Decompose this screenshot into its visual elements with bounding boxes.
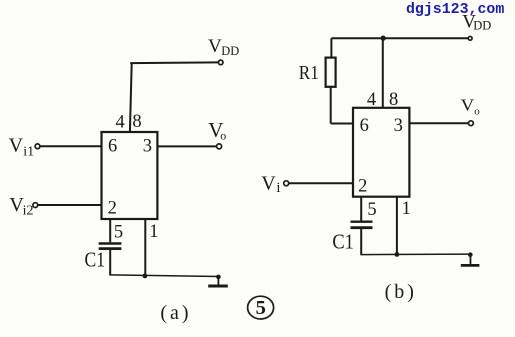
wire ground rail (a) xyxy=(109,275,218,277)
svg-text:1: 1 xyxy=(402,199,411,219)
terminal Vi2 xyxy=(33,203,38,208)
svg-text:i2: i2 xyxy=(23,204,34,219)
junction pin1/rail (a) xyxy=(143,274,148,279)
wire pins4-8 to VDD (a) vertical xyxy=(130,63,132,132)
svg-text:C1: C1 xyxy=(85,248,106,272)
svg-text:DD: DD xyxy=(473,19,491,33)
ground (a) xyxy=(208,275,228,286)
svg-text:i1: i1 xyxy=(23,144,34,159)
svg-text:(b): (b) xyxy=(385,281,417,303)
wire pin5 down (a) xyxy=(109,219,111,242)
svg-text:3: 3 xyxy=(143,136,152,156)
wire VDD horizontal (a) xyxy=(130,61,218,64)
capacitor C1 (b) xyxy=(351,222,373,228)
svg-text:V: V xyxy=(9,134,24,156)
svg-text:(a): (a) xyxy=(160,302,191,324)
wire Vi1 to pin6 xyxy=(40,145,102,147)
svg-text:2: 2 xyxy=(108,199,117,219)
svg-text:1: 1 xyxy=(149,222,158,242)
wire pin3 to Vo (b) xyxy=(409,122,468,124)
capacitor C1 (a) xyxy=(99,244,122,249)
svg-text:V: V xyxy=(261,173,276,195)
wire pin1 down (b) xyxy=(396,197,398,255)
terminal VDD (b) xyxy=(468,36,472,40)
terminal Vi (b) xyxy=(284,181,289,186)
wire R1 to corner (b) xyxy=(330,87,332,124)
svg-text:DD: DD xyxy=(221,44,239,58)
wire pin5 down (b) xyxy=(360,197,362,221)
wire C1 to rail (b) xyxy=(360,228,362,255)
svg-text:o: o xyxy=(220,128,226,142)
wire VDD rail (b) xyxy=(331,37,468,39)
terminal VDD (a) xyxy=(218,60,223,65)
svg-text:dgjs123,com: dgjs123,com xyxy=(406,2,504,18)
wire ground rail (b) xyxy=(360,253,470,256)
terminal Vo (a) xyxy=(217,144,222,149)
ground (b) xyxy=(461,252,480,265)
wire Vi2 to pin2 xyxy=(38,204,102,206)
wire pins4-8 (b) xyxy=(382,38,384,108)
label Vi1 xyxy=(9,134,35,159)
svg-text:3: 3 xyxy=(394,116,403,136)
resistor R1 xyxy=(326,58,336,87)
svg-text:C1: C1 xyxy=(332,230,354,254)
terminal Vi1 xyxy=(35,144,40,149)
junction rail/pin4-8 (b) xyxy=(381,36,386,41)
svg-text:R1: R1 xyxy=(299,62,319,84)
label VDD (b) xyxy=(462,12,491,33)
figure number circled 5 xyxy=(248,296,274,319)
svg-text:o: o xyxy=(474,106,480,118)
wire pin1 down (a) xyxy=(144,219,146,276)
svg-text:V: V xyxy=(208,36,222,57)
svg-text:5: 5 xyxy=(114,222,123,242)
svg-text:8: 8 xyxy=(132,112,141,132)
IC U_a box xyxy=(102,132,158,219)
svg-text:V: V xyxy=(461,95,475,114)
svg-text:6: 6 xyxy=(108,137,117,157)
label Vi (b) xyxy=(261,173,280,196)
svg-text:6: 6 xyxy=(360,116,369,136)
wire Vi to pin2 (b) xyxy=(289,182,353,184)
junction pin1/rail (b) xyxy=(395,252,400,257)
terminal Vo (b) xyxy=(469,121,474,126)
IC U_b box xyxy=(353,108,409,197)
label Vo (a) xyxy=(208,118,226,143)
svg-text:8: 8 xyxy=(389,90,398,110)
svg-text:2: 2 xyxy=(358,177,367,197)
wire C1 to rail (a) xyxy=(109,249,111,276)
label Vi2 xyxy=(9,194,33,219)
wire rail to R1 (b) xyxy=(330,38,332,57)
svg-text:4: 4 xyxy=(367,90,376,110)
svg-text:5: 5 xyxy=(256,297,266,319)
svg-text:5: 5 xyxy=(367,200,376,220)
label Vo (b) xyxy=(461,95,481,117)
wire corner to pin6 (b) xyxy=(331,123,353,125)
label VDD (a) xyxy=(208,36,239,58)
svg-text:i: i xyxy=(276,180,280,196)
wire pin3 to Vo (a) xyxy=(158,145,217,147)
svg-text:4: 4 xyxy=(115,112,124,132)
